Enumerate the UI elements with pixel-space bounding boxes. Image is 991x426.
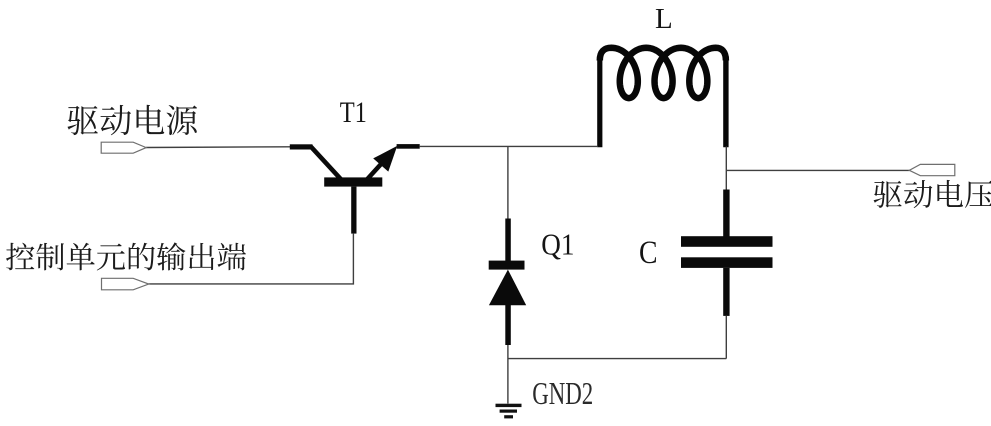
svg-text:Q1: Q1 xyxy=(541,227,574,262)
transistor T1 base lead (thick) xyxy=(351,187,356,234)
transistor T1 collector bar xyxy=(290,144,313,149)
svg-text:T1: T1 xyxy=(340,96,367,129)
wire output node to terminal xyxy=(726,169,909,171)
transistor T1 emitter bar xyxy=(397,144,420,149)
terminal flag (drive voltage) xyxy=(909,164,955,175)
wire diode to ground xyxy=(507,345,509,404)
terminal flag (drive supply) xyxy=(101,142,146,153)
wire capacitor bottom to rail xyxy=(725,316,727,359)
diode Q1 cathode bar xyxy=(489,261,525,270)
wire from drive-supply terminal to T1 collector xyxy=(146,146,290,149)
label 驱动电压 xyxy=(874,180,991,208)
bottom rail wire xyxy=(508,358,726,360)
inductor L coil xyxy=(600,48,726,98)
terminal flag (control unit output) xyxy=(102,278,149,290)
inductor L left riser xyxy=(597,56,602,147)
wire inductor right down to capacitor xyxy=(725,146,727,189)
ground GND2 bar2 xyxy=(500,410,517,413)
capacitor C top plate xyxy=(681,236,773,247)
diode Q1 bottom lead xyxy=(505,303,511,345)
label 驱动电源 xyxy=(67,105,197,136)
label 控制单元的输出端 xyxy=(6,242,246,270)
wire control terminal to T1 base xyxy=(149,234,354,284)
inductor L right riser xyxy=(723,56,728,147)
svg-text:GND2: GND2 xyxy=(532,376,593,411)
ground GND2 bar3 xyxy=(504,415,513,418)
transistor T1 emitter arrowhead xyxy=(373,146,397,172)
wire node A down to diode Q1 xyxy=(507,146,509,218)
transistor T1 emitter arrow shaft xyxy=(367,164,382,181)
diode Q1 triangle xyxy=(489,270,526,306)
capacitor C top lead xyxy=(723,190,729,237)
capacitor C bottom lead xyxy=(723,268,729,316)
capacitor C bottom plate xyxy=(681,257,773,268)
svg-text:C: C xyxy=(639,235,658,271)
svg-text:L: L xyxy=(655,3,673,35)
diode Q1 top lead xyxy=(505,219,511,262)
ground GND2 bar1 xyxy=(496,404,522,407)
wire T1 emitter to node A xyxy=(420,145,597,147)
transistor T1 collector diagonal xyxy=(311,147,341,180)
transistor T1 base bar xyxy=(324,177,382,186)
